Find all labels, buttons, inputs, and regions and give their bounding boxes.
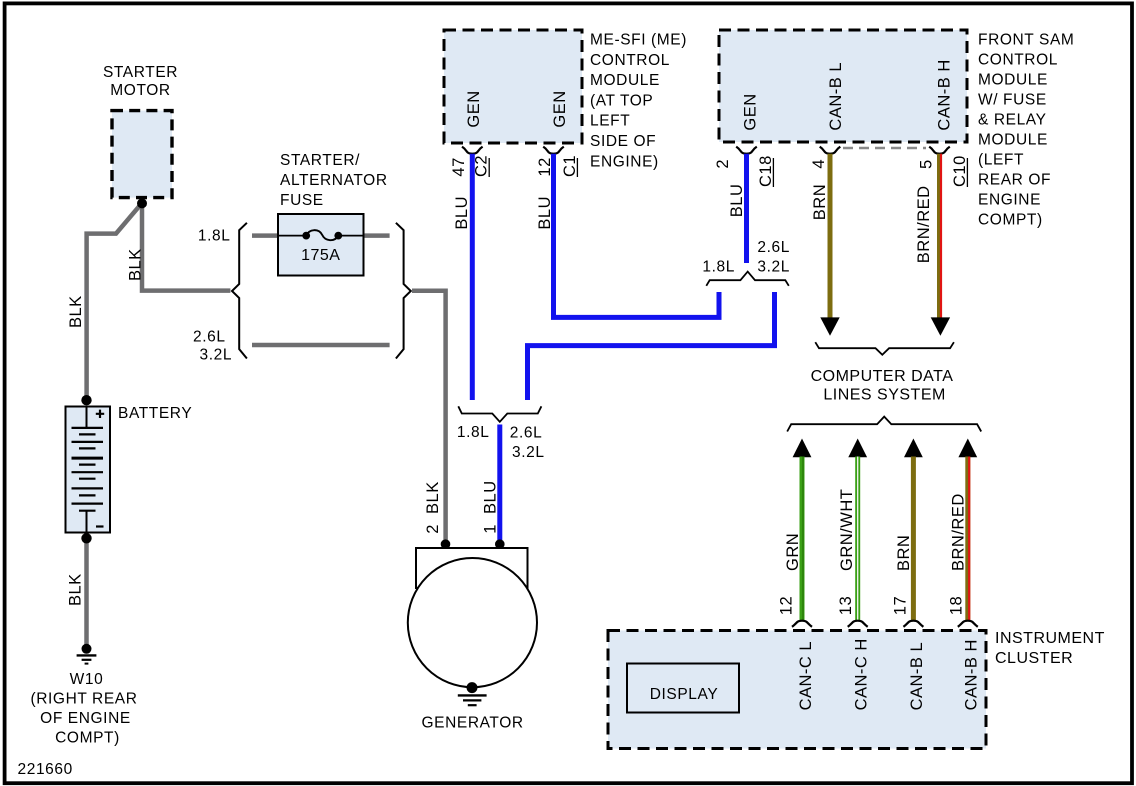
wire BRN/RED pin 5 — [937, 154, 942, 319]
wire BLK battery to ground — [84, 538, 89, 649]
gray dashed segment on box bottom — [843, 147, 926, 149]
svg-text:REAR OF: REAR OF — [978, 171, 1051, 188]
svg-text:(RIGHT REAR: (RIGHT REAR — [30, 691, 137, 708]
junction dot battery bottom — [81, 533, 91, 543]
svg-text:17: 17 — [892, 596, 910, 615]
svg-text:GENERATOR: GENERATOR — [422, 715, 524, 732]
svg-text:GEN: GEN — [741, 93, 759, 130]
svg-text:BRN: BRN — [811, 184, 829, 220]
svg-text:COMPUTER DATA: COMPUTER DATA — [811, 368, 954, 385]
wire 1.8L out of fuse — [364, 233, 390, 238]
wire 1.8L into fuse — [252, 233, 278, 238]
svg-text:BRN/RED: BRN/RED — [950, 493, 968, 571]
fuse terminal dot right — [334, 232, 342, 240]
wire BLU pin 12 to 1.8L branch — [554, 154, 720, 318]
svg-text:OF ENGINE: OF ENGINE — [40, 710, 131, 727]
connector cup pin 17 (cluster) — [903, 621, 923, 627]
svg-text:ENGINE: ENGINE — [978, 191, 1041, 208]
svg-text:175A: 175A — [301, 247, 340, 264]
svg-text:2 BLK: 2 BLK — [424, 481, 442, 534]
battery internal bottom stem — [86, 511, 88, 532]
svg-text:CAN-B L: CAN-B L — [908, 642, 926, 711]
svg-text:BLU: BLU — [536, 196, 554, 230]
svg-text:FUSE: FUSE — [280, 192, 324, 209]
svg-text:GRN/WHT: GRN/WHT — [838, 489, 856, 571]
svg-text:1.8L: 1.8L — [198, 228, 231, 245]
wire BRN pin 4 — [828, 154, 833, 319]
wire BLU 2.6L/3.2L branch — [528, 292, 775, 400]
wire BRN pin 17 — [911, 457, 916, 621]
generator circle — [408, 558, 537, 687]
ground W10 symbol — [77, 654, 97, 656]
svg-text:CAN-C L: CAN-C L — [797, 641, 815, 711]
minus sign — [96, 525, 104, 527]
svg-text:C2: C2 — [473, 155, 491, 177]
junction dot battery top — [81, 395, 91, 405]
svg-text:BLU: BLU — [453, 196, 471, 230]
svg-text:18: 18 — [948, 596, 966, 615]
svg-text:12: 12 — [778, 596, 796, 615]
wire BLU pin 2 — [744, 154, 749, 263]
svg-text:GEN: GEN — [465, 90, 483, 127]
arrow down BRN — [820, 317, 839, 335]
svg-text:STARTER: STARTER — [103, 64, 178, 81]
svg-text:MODULE: MODULE — [978, 71, 1048, 88]
connector cup pin 12 — [543, 147, 564, 154]
generator pin 2 dot — [441, 539, 451, 549]
brace above generator — [458, 406, 541, 422]
svg-text:12: 12 — [536, 157, 554, 176]
svg-text:MODULE: MODULE — [978, 131, 1048, 148]
connector cup pin 13 (cluster) — [848, 621, 868, 627]
connector cup pin 18 (cluster) — [958, 621, 978, 627]
plus sign — [96, 410, 104, 418]
svg-text:BLK: BLK — [127, 248, 145, 281]
wire GRN pin 12 — [800, 457, 805, 621]
starter motor box — [112, 111, 172, 198]
svg-text:CAN-B L: CAN-B L — [827, 62, 845, 131]
svg-text:3.2L: 3.2L — [757, 259, 790, 276]
svg-text:1 BLU: 1 BLU — [482, 480, 500, 533]
FRONT SAM control module box — [719, 30, 967, 142]
generator terminal rect — [416, 548, 528, 588]
svg-text:COMPT): COMPT) — [978, 211, 1043, 228]
svg-text:5: 5 — [918, 159, 936, 169]
arrow up GRN — [793, 439, 812, 458]
svg-text:3.2L: 3.2L — [512, 444, 545, 461]
svg-text:47: 47 — [450, 157, 468, 176]
svg-text:& RELAY: & RELAY — [978, 111, 1047, 128]
brace right — [396, 223, 411, 359]
svg-text:221660: 221660 — [18, 761, 73, 778]
svg-text:ALTERNATOR: ALTERNATOR — [280, 172, 388, 189]
arrow up GRN/WHT — [848, 439, 867, 458]
wire 2.6L/3.2L bypass — [252, 343, 390, 348]
svg-text:4: 4 — [810, 159, 828, 169]
wire GRN/WHT pin 13 — [855, 457, 860, 621]
svg-text:BRN/RED: BRN/RED — [915, 185, 933, 263]
svg-text:CAN-B H: CAN-B H — [935, 59, 953, 130]
brace over arrows — [787, 417, 981, 432]
svg-text:BRN: BRN — [895, 535, 913, 571]
arrow down BRN/RED — [931, 317, 950, 335]
wire BLK from starter motor to fuse brace — [142, 203, 230, 291]
svg-text:ENGINE): ENGINE) — [590, 153, 659, 170]
instrument cluster box — [608, 631, 986, 749]
generator pin 1 dot — [495, 539, 505, 549]
svg-text:CAN-C H: CAN-C H — [853, 638, 871, 710]
connector cup pin 47 — [462, 147, 483, 154]
connector cup pin 5 — [929, 147, 950, 154]
brace left — [232, 223, 247, 359]
svg-text:BATTERY: BATTERY — [118, 405, 192, 422]
svg-text:2.6L: 2.6L — [510, 424, 543, 441]
generator ground dot — [467, 682, 478, 693]
junction dot at starter motor — [137, 198, 147, 208]
svg-text:FRONT SAM: FRONT SAM — [978, 31, 1074, 48]
svg-text:MODULE: MODULE — [590, 72, 660, 89]
splitter brace under pin 2 — [706, 272, 789, 286]
svg-text:DISPLAY: DISPLAY — [650, 686, 719, 703]
brace under arrows — [815, 342, 954, 355]
arrow up BRN — [904, 439, 923, 458]
svg-text:LEFT: LEFT — [590, 113, 630, 130]
battery plates — [72, 427, 104, 429]
display box — [627, 664, 739, 713]
svg-text:(LEFT: (LEFT — [978, 151, 1024, 168]
svg-text:CONTROL: CONTROL — [978, 51, 1058, 68]
svg-text:INSTRUMENT: INSTRUMENT — [995, 630, 1105, 647]
svg-text:C18: C18 — [757, 155, 775, 187]
wire from right brace to generator — [412, 291, 446, 544]
wire BLU pin 47 to brace — [470, 154, 475, 400]
fuse box — [278, 214, 364, 276]
svg-text:ME-SFI (ME): ME-SFI (ME) — [590, 32, 687, 49]
svg-text:13: 13 — [837, 596, 855, 615]
svg-text:MOTOR: MOTOR — [110, 82, 170, 99]
svg-text:2: 2 — [714, 159, 732, 169]
battery box — [66, 407, 111, 533]
svg-text:2.6L: 2.6L — [757, 239, 790, 256]
svg-text:GRN: GRN — [784, 533, 802, 571]
ME-SFI control module box — [444, 30, 582, 143]
svg-text:GEN: GEN — [551, 90, 569, 127]
svg-text:BLK: BLK — [67, 295, 85, 328]
svg-text:C10: C10 — [951, 155, 969, 187]
fuse element s-curve — [306, 230, 338, 240]
svg-text:2.6L: 2.6L — [193, 329, 226, 346]
svg-text:STARTER/: STARTER/ — [280, 152, 360, 169]
wire BLU from brace to generator pin 1 — [497, 425, 502, 545]
svg-text:BLK: BLK — [67, 573, 85, 606]
svg-text:W/ FUSE: W/ FUSE — [978, 91, 1047, 108]
svg-text:C1: C1 — [561, 155, 579, 177]
connector cup pin 2 — [736, 147, 757, 154]
fuse terminal dot left — [302, 232, 310, 240]
svg-text:LINES SYSTEM: LINES SYSTEM — [823, 387, 945, 404]
battery internal top stem — [86, 407, 88, 428]
arrow up BRN/RED — [958, 439, 977, 458]
wire BRN/RED pin 18 — [965, 457, 970, 621]
connector cup pin 12 (cluster) — [792, 621, 812, 627]
fuse element line — [278, 235, 364, 237]
svg-text:1.8L: 1.8L — [457, 424, 490, 441]
svg-text:1.8L: 1.8L — [702, 259, 735, 276]
wire BLK from starter motor to battery — [87, 203, 142, 400]
svg-text:CLUSTER: CLUSTER — [995, 650, 1073, 667]
svg-text:BLU: BLU — [728, 184, 746, 218]
connector cup pin 4 — [820, 147, 841, 154]
svg-text:COMPT): COMPT) — [55, 730, 120, 747]
svg-text:CAN-B H: CAN-B H — [963, 639, 981, 710]
ground W10 dot — [82, 644, 92, 654]
svg-text:SIDE OF: SIDE OF — [590, 133, 656, 150]
svg-text:CONTROL: CONTROL — [590, 52, 670, 69]
generator ground symbol — [458, 694, 487, 696]
svg-text:W10: W10 — [70, 671, 104, 688]
svg-text:(AT TOP: (AT TOP — [590, 92, 653, 109]
svg-text:3.2L: 3.2L — [200, 347, 233, 364]
